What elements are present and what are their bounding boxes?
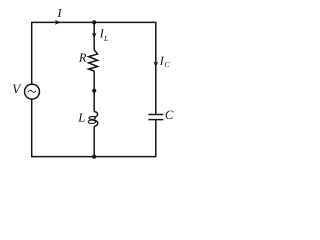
label I (top) <box>57 9 62 17</box>
label L <box>78 113 85 121</box>
inductor L coil: lower right bump <box>94 120 98 126</box>
resistor R zigzag <box>89 50 98 71</box>
arrowhead current IL downward on middle branch <box>92 33 97 39</box>
junction node dot top (middle branch / top wire) <box>92 20 96 24</box>
wire left-upper + top + right-upper (with corners) <box>32 22 156 114</box>
label I of IC <box>160 57 165 65</box>
label L subscript of IL <box>104 36 108 41</box>
label I of IL <box>100 29 105 37</box>
arrowhead current IC downward on right branch <box>153 62 158 68</box>
inductor L coil: upper right bump <box>94 112 98 117</box>
label C subscript of IC <box>165 62 170 67</box>
wire middle upper segment <box>93 22 95 50</box>
inductor L coil: upper loop <box>89 117 95 120</box>
voltage source V circle <box>25 84 40 99</box>
arrowhead current I rightward on top wire <box>55 20 61 25</box>
capacitor C top plate <box>148 114 163 116</box>
wire left-lower + bottom + right-lower (with corners) <box>32 99 156 156</box>
label V <box>13 85 22 94</box>
wire middle between resistor and inductor <box>93 71 95 112</box>
wire middle lower segment <box>93 126 95 156</box>
label R <box>79 54 86 62</box>
inductor L coil: lower loop <box>88 120 96 123</box>
junction node dot bottom (middle branch / bottom wire) <box>92 155 96 159</box>
label C <box>166 111 174 119</box>
capacitor C bottom plate <box>148 119 163 121</box>
voltage source sine symbol <box>28 90 36 92</box>
junction node dot between resistor and inductor <box>92 89 96 93</box>
